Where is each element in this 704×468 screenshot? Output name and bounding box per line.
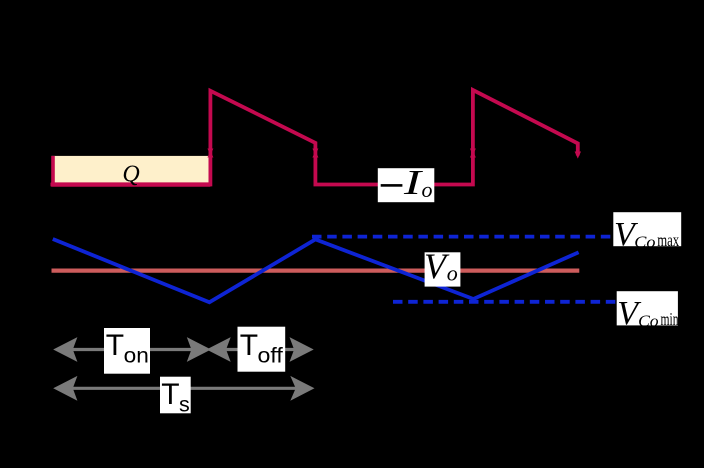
svg-text:max: max [657,230,679,250]
Ts interval arrow (double headed) [53,376,314,401]
dashed line VCo min [393,300,618,304]
svg-text:Co: Co [634,232,655,251]
svg-text:T: T [161,378,179,411]
zero-axis arrow mark on vertical at Ton+Toff [312,151,318,158]
Q region left border [51,156,55,185]
label box Toff [238,327,286,372]
Q region bottom border [51,182,210,186]
Toff interval arrow (double headed) [207,337,314,362]
svg-text:o: o [422,177,433,202]
svg-text:on: on [124,344,149,368]
waveform end arrowhead [575,152,581,159]
svg-text:Q: Q [122,162,139,188]
svg-text:off: off [258,344,283,368]
zero-axis arrow mark on vertical at Ton [207,151,213,158]
label box Vo [425,252,461,286]
label box VCo min [617,291,678,325]
Ton interval arrow (double headed) [53,337,211,362]
output voltage mean line Vo (salmon) [52,269,580,273]
label -Io minus sign [381,184,403,187]
svg-text:min: min [661,309,679,329]
label box Ton [104,328,150,374]
zero-axis arrow mark on vertical at 2nd period [470,151,476,158]
label box -Io [378,168,435,202]
dashed line VCo max [312,235,612,239]
Q charge region (tan fill) [52,156,211,185]
svg-text:o: o [447,260,458,285]
capacitor current waveform iC [51,90,578,185]
label box Ts [160,377,191,414]
capacitor voltage ripple waveform vC (blue triangle) [53,239,579,302]
svg-text:T: T [106,329,124,362]
svg-text:Co: Co [638,311,659,330]
label box VCo max [613,212,681,246]
svg-text:T: T [240,329,258,362]
svg-text:s: s [179,393,190,417]
